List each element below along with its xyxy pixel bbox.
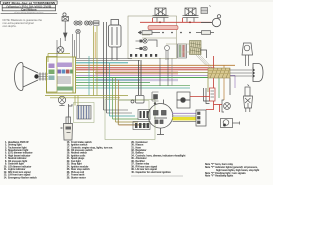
wire red bus 1 [76, 67, 215, 69]
svg-text:22.: 22. [67, 161, 71, 163]
wire dark L in box [148, 40, 157, 47]
svg-text:R/H front turn signal: R/H front turn signal [8, 171, 31, 174]
svg-text:L/D dimmer indicator: L/D dimmer indicator [8, 165, 31, 168]
ignition switch (16) [212, 15, 220, 27]
instrument enclosure box [128, 16, 177, 59]
wire orange vertical [94, 32, 96, 58]
svg-text:21.: 21. [67, 158, 71, 160]
svg-text:Headlamp 45/45 W: Headlamp 45/45 W [8, 141, 29, 144]
wire olive bus [76, 72, 208, 74]
wire olive verticals to connector [75, 96, 78, 106]
svg-text:Stop light: Stop light [71, 163, 82, 166]
svg-text:Ignition switch: Ignition switch [71, 144, 88, 147]
connector block left [47, 57, 58, 93]
starter relay (37) [177, 92, 190, 108]
svg-text:28.: 28. [67, 177, 71, 179]
svg-text:High beam indicator: High beam indicator [8, 154, 30, 157]
fuse holder right [196, 31, 214, 35]
main fuse (salmon) [148, 26, 178, 30]
svg-text:15.: 15. [67, 142, 71, 144]
svg-text:Neutral switch: Neutral switch [71, 152, 87, 155]
svg-text:5.: 5. [5, 153, 7, 155]
wire yellow band [173, 117, 197, 120]
svg-text:all atv wiring diagrams ar: all atv wiring diagrams archive [14, 11, 44, 14]
brake lamp bulb [244, 85, 253, 113]
legend item 40 emphasis [131, 175, 183, 177]
legend column 3 [131, 142, 185, 174]
wire black bus 1 [76, 58, 132, 60]
svg-text:Frame earth: Frame earth [71, 174, 85, 177]
svg-text:Tachometer light: Tachometer light [8, 146, 27, 149]
wire dark pair to fuse [204, 88, 210, 104]
svg-text:Oil pressure switch: Oil pressure switch [71, 149, 93, 152]
svg-text:Klaxon: Klaxon [136, 145, 144, 147]
harness wrap block [180, 41, 201, 55]
svg-text:35.: 35. [131, 158, 135, 160]
wire green bus [76, 77, 230, 79]
wire olive to horn [45, 96, 128, 98]
svg-text:Controls: engine stop, lights,: Controls: engine stop, lights, turn sw. [71, 146, 113, 149]
wire teal bus [76, 62, 128, 64]
svg-text:17.: 17. [67, 147, 71, 149]
svg-text:Starter relay: Starter relay [136, 163, 150, 166]
legend column 2 [67, 141, 113, 179]
svg-text:24.: 24. [67, 165, 71, 168]
svg-text:40.: 40. [131, 171, 135, 174]
svg-text:36.: 36. [131, 161, 135, 163]
wire ht lead verticals [138, 60, 140, 95]
horn (31) [58, 96, 65, 105]
headlight (1) [15, 62, 39, 90]
svg-text:1.: 1. [5, 142, 7, 144]
svg-text:23.: 23. [67, 164, 71, 166]
wire light links top right [142, 35, 177, 44]
svg-text:Pick-up coil: Pick-up coil [71, 172, 84, 174]
svg-text:Controls: horn, dimmer, indica: Controls: horn, dimmer, indicators+headl… [136, 154, 186, 157]
svg-text:8.: 8. [5, 161, 7, 163]
svg-text:Rectifier: Rectifier [136, 160, 145, 163]
wire purple bus [76, 74, 235, 76]
wire purple lower [172, 112, 196, 114]
svg-text:16.: 16. [67, 145, 71, 147]
wire olive from position light [48, 54, 70, 63]
svg-text:10.: 10. [4, 166, 8, 168]
fuse holder left [138, 31, 160, 35]
wire verticals right cluster [207, 73, 209, 92]
svg-text:34.: 34. [131, 154, 135, 157]
wire red main feed [140, 18, 212, 22]
wire green bus low [76, 82, 150, 84]
svg-text:Condenser: Condenser [136, 142, 148, 144]
svg-text:12.: 12. [4, 172, 8, 174]
svg-text:31.: 31. [131, 147, 135, 149]
wire green L-bend [113, 118, 139, 120]
svg-text:14.: 14. [4, 176, 8, 179]
indicator lamp 2 [136, 46, 148, 50]
connector block main (handlebar harness) [47, 57, 76, 93]
svg-text:Carl Wilson: Carl Wilson [21, 8, 37, 12]
svg-text:11.: 11. [4, 169, 7, 171]
svg-text:30.: 30. [131, 145, 135, 147]
svg-text:Fan light: Fan light [71, 160, 81, 163]
headlight wires [38, 74, 48, 79]
legend column 1 [4, 141, 38, 179]
svg-text:Horn: Horn [136, 147, 142, 149]
pilot bulb wires [77, 34, 80, 59]
striped connector block [74, 103, 95, 123]
svg-text:20.: 20. [67, 155, 71, 157]
CDI unit outline [105, 100, 155, 140]
svg-text:Alternator: Alternator [136, 157, 147, 160]
svg-text:3.: 3. [5, 147, 7, 149]
wire black bus 2 [76, 60, 140, 62]
wire dark L-bend [104, 109, 129, 111]
svg-text:2.: 2. [5, 145, 7, 147]
flasher relay [242, 43, 253, 66]
svg-text:13.: 13. [4, 175, 8, 177]
svg-text:Note "Y" Headlamp lights: Note "Y" Headlamp lights [205, 175, 234, 178]
svg-text:19.: 19. [67, 153, 71, 155]
harness fan wires [196, 55, 214, 70]
meter bulb [165, 46, 170, 61]
connector cluster center [133, 110, 150, 130]
fuse block (red outline) [210, 88, 216, 101]
ignition coil (20) [109, 20, 122, 61]
wire stubs above connector [57, 34, 75, 57]
wire brown bus [76, 64, 235, 66]
svg-text:Driving light: Driving light [8, 144, 22, 147]
svg-text:Neutral indicator: Neutral indicator [8, 157, 27, 160]
svg-text:Rear stop switch: Rear stop switch [71, 168, 90, 171]
svg-text:Ignition coils: Ignition coils [71, 154, 86, 157]
headlight bulb [34, 74, 38, 78]
wire teal bus low [76, 79, 140, 81]
svg-text:Front brake switch: Front brake switch [71, 141, 92, 144]
svg-text:18.: 18. [67, 150, 71, 152]
svg-text:29.: 29. [131, 142, 135, 144]
wire teal L-bend [110, 115, 136, 117]
legend notes column [205, 163, 259, 177]
svg-text:(L/T) dimmer indicator: (L/T) dimmer indicator [8, 152, 33, 155]
wire dark2 L-bend [107, 112, 133, 114]
svg-text:Emergency flasher switch: Emergency flasher switch [8, 176, 37, 179]
wire red bus 2 [76, 69, 215, 71]
ignition HT coil lower [61, 104, 73, 140]
wire lavender band [95, 79, 178, 81]
svg-text:Ignition module: Ignition module [71, 165, 89, 168]
paper background [0, 0, 273, 185]
svg-text:Regulator: Regulator [136, 149, 147, 152]
wire olive vertical 1 [93, 26, 95, 96]
svg-text:25.: 25. [67, 169, 71, 171]
svg-text:Capacitor for electronic ignit: Capacitor for electronic ignition [136, 171, 172, 174]
multi-pin connector [178, 44, 187, 58]
svg-text:Oil pressure light: Oil pressure light [8, 160, 27, 163]
svg-text:Spark plugs: Spark plugs [71, 158, 85, 160]
note paragraph [3, 18, 43, 28]
magneto / alternator (35) [148, 100, 173, 135]
wire dark vertical coil legs [103, 22, 105, 110]
wire teal exit low [76, 87, 190, 89]
AC magneto coil A [153, 8, 169, 22]
handlebar switch contacts [74, 21, 99, 25]
wire red starter feed [190, 97, 222, 113]
wire teal vertical [88, 56, 90, 95]
indicator lamp 1 [136, 39, 148, 43]
svg-text:Speedometer light: Speedometer light [8, 149, 29, 152]
svg-text:39.: 39. [131, 169, 135, 171]
svg-text:33.: 33. [131, 153, 135, 155]
rear brake switch [221, 119, 240, 128]
svg-text:L/H rear turn signal: L/H rear turn signal [136, 168, 158, 171]
svg-text:Lights indicator: Lights indicator [8, 168, 26, 171]
tail lamp connector wires [230, 70, 252, 76]
wire verticals from magneto [159, 58, 161, 86]
svg-text:7.: 7. [5, 158, 7, 160]
svg-text:Note "Y" horn, horn relay: Note "Y" horn, horn relay [205, 163, 234, 166]
harness bundle (tan) [208, 68, 230, 78]
side marker lamp [222, 100, 230, 112]
svg-text:high beam lights, high beam, s: high beam lights, high beam, stop light [216, 169, 259, 172]
svg-text:37.: 37. [131, 164, 135, 166]
position light (2) [57, 47, 64, 54]
svg-text:Starter motor: Starter motor [71, 176, 86, 179]
svg-text:4.: 4. [5, 149, 7, 152]
wire olive L-bend [116, 121, 139, 123]
wire olive vertical 2 [96, 26, 98, 96]
wire green exit low [76, 85, 190, 87]
svg-text:6.: 6. [5, 155, 7, 157]
wire brown L-bend [119, 124, 141, 126]
svg-text:26.: 26. [67, 172, 71, 174]
wire salmon band [95, 71, 178, 74]
svg-text:9.: 9. [5, 164, 7, 166]
AC magneto coil B [183, 8, 199, 22]
wire dark L from harness [200, 50, 207, 58]
svg-text:38.: 38. [131, 166, 135, 168]
spark plug cap [131, 96, 144, 104]
svg-text:R/H rear turn signal: R/H rear turn signal [136, 165, 158, 168]
svg-text:L/H front turn signal: L/H front turn signal [8, 174, 31, 177]
svg-text:Battery: Battery [136, 152, 145, 155]
svg-text:Note "Y" indicator lights (ge: Note "Y" indicator lights (general): oil… [205, 166, 258, 169]
svg-text:32.: 32. [131, 150, 135, 152]
svg-text:Gearshift light: Gearshift light [8, 163, 24, 166]
svg-text:Note "Y" Flashing light : tur: Note "Y" Flashing light : turn signals [205, 172, 246, 175]
resistor block top right [201, 6, 211, 14]
svg-text:own depths.: own depths. [3, 24, 17, 28]
tail lamp assembly [253, 64, 263, 82]
title block [1, 1, 58, 14]
pilot bulb [76, 29, 80, 33]
svg-text:27.: 27. [67, 175, 71, 177]
rectifier connector (36) [196, 110, 206, 126]
pin row in enclosure [130, 54, 157, 57]
fuel sender unit (top) [62, 13, 69, 41]
bracket component right of CDI [152, 92, 159, 104]
